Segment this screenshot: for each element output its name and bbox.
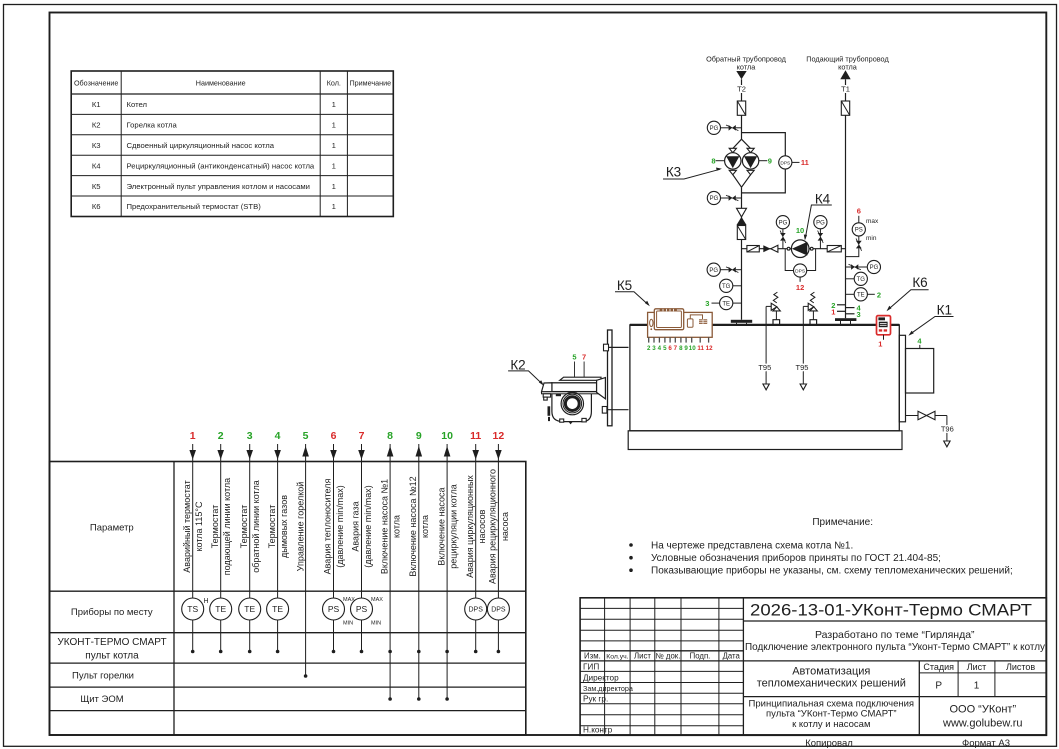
svg-text:К3: К3 — [92, 141, 101, 150]
signal line 8 — [389, 444, 391, 699]
panel wire bracket — [690, 315, 702, 319]
svg-text:3: 3 — [652, 345, 656, 352]
K6 buttons — [879, 329, 882, 331]
field instrument TE 4 — [267, 598, 289, 620]
svg-text:12: 12 — [706, 345, 713, 352]
strainer on return pipe top — [737, 101, 745, 115]
svg-text:max: max — [866, 218, 879, 225]
signal line 7 — [361, 444, 363, 652]
signal arrow 8 up — [387, 446, 394, 457]
svg-text:К1: К1 — [92, 100, 101, 109]
svg-text:Аварийный термостат: Аварийный термостат — [182, 480, 192, 572]
svg-text:PS: PS — [855, 228, 863, 234]
supply pipe outlet arrow — [840, 70, 850, 79]
label K1 — [908, 303, 953, 336]
panel small module — [687, 319, 693, 327]
svg-text:11: 11 — [470, 430, 481, 442]
svg-text:ГИП: ГИП — [583, 662, 599, 671]
svg-text:TG: TG — [722, 284, 731, 290]
signal arrow 5 up — [302, 446, 309, 457]
drain pipe T96 — [946, 416, 948, 441]
boiler K1 body — [630, 325, 899, 431]
svg-text:PG: PG — [779, 220, 788, 226]
pump K4 (node 10) — [791, 240, 809, 258]
svg-text:Показывающие приборы не указан: Показывающие приборы не указаны, см. схе… — [651, 565, 1013, 577]
safety valve drain pipe T95 right — [802, 306, 804, 384]
svg-text:Кол.: Кол. — [327, 79, 341, 88]
svg-text:9: 9 — [416, 430, 422, 442]
svg-text:(давление min/max): (давление min/max) — [363, 485, 373, 568]
burner fan rings — [561, 392, 583, 414]
panel pin numbers — [647, 345, 713, 352]
svg-text:7: 7 — [359, 430, 365, 442]
svg-text:Примечание:: Примечание: — [812, 517, 873, 528]
svg-text:К6: К6 — [912, 275, 927, 290]
pressure gauge PG with cock (recirc discharge) — [814, 216, 827, 249]
signal arrow 11 down — [472, 450, 479, 460]
svg-text:К2: К2 — [510, 358, 525, 373]
field instrument PS 7 — [351, 598, 373, 620]
svg-text:1: 1 — [974, 681, 980, 692]
svg-text:TS: TS — [187, 604, 198, 614]
panel terminal block — [699, 319, 707, 324]
burner left step — [543, 394, 550, 397]
svg-text:11: 11 — [801, 158, 809, 167]
svg-text:Н.контр: Н.контр — [583, 726, 613, 735]
svg-text:3: 3 — [247, 430, 253, 442]
svg-text:насоса: насоса — [500, 512, 510, 541]
svg-text:Т2: Т2 — [737, 85, 746, 94]
strainer on supply pipe — [841, 101, 849, 115]
svg-text:Условные обозначения приборов: Условные обозначения приборов приняты по… — [651, 552, 941, 564]
svg-text:Обозначение: Обозначение — [74, 79, 118, 88]
sensor pocket tick node 3 — [846, 313, 855, 315]
svg-text:PG: PG — [870, 265, 879, 271]
svg-text:MIN: MIN — [371, 621, 381, 627]
DPS bypass loop around twin pump — [742, 133, 786, 193]
pressure gauge PG with cock (return, above pumps) — [707, 121, 741, 134]
title block left grid verticals — [604, 598, 606, 736]
svg-text:№ док.: № док. — [655, 652, 680, 661]
burner detail marks — [556, 394, 561, 396]
svg-text:дымовых газов: дымовых газов — [279, 495, 289, 558]
svg-text:Термостат: Термостат — [210, 505, 220, 549]
signal arrow 1 down — [189, 450, 196, 460]
signal arrow 9 up — [416, 446, 423, 457]
supply pipe T1 — [845, 79, 847, 318]
svg-text:1: 1 — [332, 182, 336, 191]
safety valve SV2 — [803, 292, 817, 325]
svg-text:ООО “УКонт”: ООО “УКонт” — [949, 704, 1016, 716]
svg-text:Стадия: Стадия — [923, 662, 954, 672]
svg-text:К6: К6 — [92, 202, 101, 211]
panel display screen — [657, 311, 682, 328]
svg-text:min: min — [866, 235, 877, 242]
signal line 6 — [333, 444, 335, 652]
burner fan housing — [552, 394, 592, 422]
sensor pocket tick node 4 — [846, 307, 855, 309]
panel display bezel — [654, 309, 683, 330]
svg-text:Авария рециркуляционного: Авария рециркуляционного — [488, 469, 498, 584]
svg-text:К3: К3 — [666, 165, 681, 180]
svg-text:Дата: Дата — [723, 652, 741, 661]
svg-text:TE: TE — [244, 604, 255, 614]
svg-text:2026-13-01-УКонт-Термо СМАРТ: 2026-13-01-УКонт-Термо СМАРТ — [750, 601, 1032, 620]
burner left cap — [542, 383, 552, 392]
boiler rear flange band — [899, 335, 905, 422]
svg-text:Р: Р — [935, 681, 942, 692]
svg-text:10: 10 — [796, 226, 804, 235]
signal line 11 — [475, 444, 477, 652]
svg-text:4: 4 — [275, 430, 281, 442]
field instrument DPS 11 — [465, 598, 487, 620]
svg-text:PG: PG — [710, 126, 719, 132]
svg-text:Приборы по месту: Приборы по месту — [71, 607, 153, 618]
label K4 — [804, 192, 832, 241]
svg-text:тепломеханических решений: тепломеханических решений — [757, 678, 906, 690]
svg-text:котла: котла — [392, 515, 402, 538]
signal line 2 — [220, 444, 222, 652]
svg-text:Зам.директора: Зам.директора — [583, 684, 633, 693]
recirculation pipe — [742, 248, 846, 250]
svg-text:TE: TE — [272, 604, 283, 614]
K6 housing — [877, 316, 891, 335]
svg-text:PG: PG — [710, 196, 719, 202]
panel K5 body — [648, 312, 713, 337]
safety valve SV1 — [766, 292, 780, 325]
svg-text:К4: К4 — [815, 192, 831, 207]
burner mounting plate — [608, 330, 613, 426]
burner bolt upper — [604, 344, 629, 351]
signal line 9 — [418, 444, 420, 699]
connection dot burner panel row — [304, 674, 308, 678]
burner left foot — [544, 397, 548, 400]
strainer on return pipe bottom — [737, 226, 745, 240]
svg-text:насосов: насосов — [477, 509, 487, 543]
svg-text:Щит ЭОМ: Щит ЭОМ — [80, 694, 123, 705]
note bullet 2 — [629, 556, 633, 560]
svg-text:3: 3 — [705, 299, 709, 308]
svg-text:Сдвоенный циркуляционный насос: Сдвоенный циркуляционный насос котла — [127, 141, 275, 150]
svg-text:обратной линии котла: обратной линии котла — [251, 480, 261, 572]
note bullet 1 — [629, 543, 633, 547]
svg-text:Разработано по теме “Гирлянда”: Разработано по теме “Гирлянда” — [815, 629, 975, 641]
svg-text:Термостат: Термостат — [239, 505, 249, 549]
svg-text:Примечание: Примечание — [349, 79, 391, 88]
svg-text:1: 1 — [332, 141, 336, 150]
svg-text:1: 1 — [332, 161, 336, 170]
svg-text:8: 8 — [387, 430, 393, 442]
boiler top thick line — [630, 324, 899, 326]
burner bolt lower — [602, 407, 628, 414]
svg-text:Термостат: Термостат — [267, 505, 277, 549]
field instrument TS 1 — [182, 598, 204, 620]
svg-text:Пульт горелки: Пульт горелки — [72, 670, 134, 681]
svg-text:К4: К4 — [92, 161, 101, 170]
signal line 5 — [305, 444, 307, 676]
svg-text:Кол.уч.: Кол.уч. — [606, 654, 628, 661]
label K3 — [663, 165, 722, 180]
svg-text:7: 7 — [582, 353, 586, 362]
supply pipe flange to boiler — [835, 318, 856, 325]
field instrument PS 6 — [323, 598, 345, 620]
panel pins — [649, 337, 709, 342]
signal line 3 — [249, 444, 251, 652]
label K2 — [508, 358, 544, 386]
title block right part — [743, 620, 1046, 622]
safety valve drain pipe T95 left — [765, 306, 767, 384]
thermometer TG (supply) — [846, 272, 868, 285]
svg-text:К1: К1 — [937, 303, 952, 318]
panel left slot — [650, 319, 653, 326]
svg-text:(давление min/max): (давление min/max) — [335, 485, 345, 568]
svg-text:MIN: MIN — [343, 621, 353, 627]
svg-text:пульт котла: пульт котла — [85, 650, 139, 661]
twin pump suction diamond top — [733, 139, 742, 148]
pressure gauge PG with cock (supply) — [846, 260, 881, 273]
temperature sensor TE (supply, node 2) — [846, 288, 882, 301]
signal line 4 — [277, 444, 279, 652]
svg-text:Т95: Т95 — [758, 363, 771, 372]
signal column numbers — [190, 430, 505, 442]
signal arrow 7 down — [358, 450, 365, 460]
svg-text:Авария циркуляционных: Авария циркуляционных — [465, 475, 475, 578]
svg-text:1: 1 — [332, 100, 336, 109]
label K6 — [887, 275, 929, 311]
svg-text:Рук гр.: Рук гр. — [583, 695, 608, 704]
sensor pocket tick node 2 — [837, 304, 846, 306]
svg-text:12: 12 — [493, 430, 505, 442]
svg-text:Листов: Листов — [1006, 662, 1035, 672]
svg-text:8: 8 — [711, 157, 715, 166]
connection dots EOM board row — [388, 697, 449, 701]
pressure gauge PG with cock (return, lower) — [707, 263, 741, 276]
svg-text:PG: PG — [816, 220, 825, 226]
connection dots controller row — [191, 650, 500, 654]
svg-text:Включение насоса №12: Включение насоса №12 — [408, 476, 418, 576]
svg-text:4: 4 — [917, 337, 922, 346]
svg-text:Горелка котла: Горелка котла — [127, 121, 178, 130]
svg-text:1: 1 — [190, 430, 196, 442]
title block header labels — [584, 652, 740, 661]
pump port flange left — [787, 247, 790, 250]
check valve below pump A — [729, 170, 736, 174]
signal arrow 3 down — [246, 450, 253, 460]
svg-text:котла 115°С: котла 115°С — [194, 501, 204, 551]
sensor pocket tick node 1 — [837, 310, 846, 312]
svg-text:Копировал: Копировал — [805, 738, 853, 749]
check valve pump branch A — [729, 148, 736, 152]
svg-text:Изм.: Изм. — [584, 652, 601, 661]
svg-text:Подп.: Подп. — [690, 652, 711, 661]
svg-text:котла: котла — [420, 515, 430, 538]
svg-text:10: 10 — [441, 430, 453, 442]
svg-text:DPS: DPS — [795, 269, 805, 275]
svg-text:TE: TE — [722, 301, 730, 307]
svg-text:Формат А3: Формат А3 — [962, 738, 1010, 749]
panel display top hatch — [660, 309, 677, 311]
svg-text:Рециркуляционный (антиконденса: Рециркуляционный (антиконденсатный) насо… — [127, 161, 315, 170]
return pipe T2 — [741, 79, 743, 139]
svg-text:К5: К5 — [92, 182, 101, 191]
pressure gauge PG with cock (recirc suction) — [776, 216, 789, 249]
svg-text:2: 2 — [218, 430, 224, 442]
svg-text:котла: котла — [737, 62, 757, 71]
svg-text:Параметр: Параметр — [90, 522, 134, 533]
svg-text:MAX: MAX — [371, 597, 383, 603]
svg-text:котла: котла — [838, 62, 858, 71]
signal line 10 — [446, 444, 448, 699]
svg-text:PS: PS — [356, 604, 368, 614]
svg-text:Котел: Котел — [127, 100, 148, 109]
signal arrow 4 down — [274, 450, 281, 460]
svg-text:Лист: Лист — [634, 652, 651, 661]
svg-text:1: 1 — [831, 307, 835, 316]
title block left grid horizontals — [580, 607, 743, 609]
rotated parameter captions — [182, 469, 510, 584]
svg-text:К2: К2 — [92, 121, 101, 130]
equipment table header text — [74, 79, 391, 88]
signal line 12 — [497, 444, 499, 652]
svg-text:Т96: Т96 — [941, 425, 954, 434]
pressure switch PS branch (node 6) — [846, 207, 880, 257]
svg-text:Директор: Директор — [583, 673, 619, 682]
burner outlet flange cone — [597, 378, 606, 399]
svg-text:1: 1 — [878, 339, 882, 348]
svg-text:10: 10 — [689, 345, 696, 352]
svg-text:к котлу и насосам: к котлу и насосам — [792, 719, 870, 730]
svg-text:Управление горелкой: Управление горелкой — [296, 482, 306, 572]
svg-text:Наименование: Наименование — [196, 79, 246, 88]
svg-text:5: 5 — [572, 353, 576, 362]
svg-text:PG: PG — [709, 268, 718, 274]
equipment table frame — [71, 71, 393, 217]
K6 display — [879, 322, 888, 328]
svg-text:3: 3 — [857, 310, 861, 319]
field instrument TE 2 — [210, 598, 232, 620]
burner air box body — [552, 383, 597, 392]
svg-text:5: 5 — [303, 430, 309, 442]
svg-text:7: 7 — [674, 345, 678, 352]
svg-text:Включение насоса: Включение насоса — [436, 487, 446, 565]
svg-text:DPS: DPS — [468, 607, 483, 614]
return pipe inlet arrow — [736, 71, 746, 79]
title block signature labels — [583, 662, 633, 734]
boiler drain valve — [906, 411, 947, 419]
boiler base plinth — [628, 431, 902, 450]
K6 lead to boiler (node 1) — [883, 335, 885, 340]
pressure gauge PG with cock (return, below pumps) — [707, 191, 741, 204]
svg-text:Автоматизация: Автоматизация — [792, 666, 870, 678]
svg-text:DPS: DPS — [780, 160, 790, 166]
svg-text:5: 5 — [663, 345, 667, 352]
signal arrow 12 down — [495, 450, 502, 460]
svg-text:11: 11 — [697, 345, 704, 352]
svg-text:рециркуляции котла: рециркуляции котла — [449, 484, 459, 568]
burner top cover band — [560, 377, 601, 380]
pump port flange right — [810, 247, 813, 250]
svg-text:www.golubew.ru: www.golubew.ru — [942, 718, 1023, 730]
svg-text:подающей линии котла: подающей линии котла — [222, 478, 232, 575]
differential pressure switch DPS (node 11) — [779, 156, 792, 169]
thermometer TG (return) — [720, 279, 742, 292]
svg-text:TG: TG — [857, 277, 866, 283]
check valve pump branch B — [747, 148, 754, 152]
boiler rear smoke box — [906, 349, 934, 394]
svg-text:УКОНТ-ТЕРМО СМАРТ: УКОНТ-ТЕРМО СМАРТ — [57, 637, 166, 648]
svg-text:6: 6 — [331, 430, 337, 442]
svg-text:8: 8 — [679, 345, 683, 352]
temperature sensor TE (return, node 3) — [705, 297, 741, 310]
svg-text:Т95: Т95 — [796, 363, 809, 372]
svg-text:Т1: Т1 — [841, 85, 850, 94]
svg-text:6: 6 — [668, 345, 672, 352]
K6 top window — [878, 317, 885, 320]
svg-text:TE: TE — [215, 604, 226, 614]
svg-text:12: 12 — [796, 283, 804, 292]
svg-text:Лист: Лист — [967, 662, 987, 672]
panel left dot — [650, 328, 652, 330]
svg-text:H: H — [204, 598, 209, 605]
check valve on return pipe — [737, 208, 747, 225]
label K5 — [615, 278, 650, 306]
svg-text:6: 6 — [857, 207, 861, 216]
svg-text:К5: К5 — [617, 278, 632, 293]
svg-text:1: 1 — [332, 202, 336, 211]
strainer recirc left — [747, 246, 759, 252]
pump K3 branch A (node 8) — [725, 153, 741, 169]
svg-text:PS: PS — [328, 604, 340, 614]
burner bottom plate — [542, 392, 599, 394]
pump K3 branch B (node 9) — [742, 153, 758, 169]
svg-text:Подключение электронного пульт: Подключение электронного пульта “Уконт-Т… — [745, 641, 1046, 653]
field instrument DPS 12 — [487, 598, 509, 620]
signal arrow 6 down — [330, 450, 337, 460]
strainer recirc right — [827, 246, 841, 252]
field instrument TE 3 — [239, 598, 261, 620]
check valve recirc — [763, 245, 778, 252]
equipment table rows — [92, 100, 336, 211]
svg-text:Авария теплоносителя: Авария теплоносителя — [323, 479, 333, 575]
svg-text:DPS: DPS — [491, 607, 506, 614]
twin pump discharge diamond bottom — [733, 175, 742, 188]
signal arrow 10 up — [444, 446, 451, 457]
note bullet 3 — [629, 568, 633, 572]
node 4 on smoke box — [919, 345, 921, 349]
svg-text:2: 2 — [647, 345, 651, 352]
svg-text:На чертеже представлена схема: На чертеже представлена схема котла №1. — [651, 541, 853, 552]
parameter table frame — [50, 462, 526, 736]
svg-text:TE: TE — [857, 293, 865, 299]
signal line 1 — [192, 444, 194, 652]
DPS loop across pump K4 (node 12) — [785, 249, 793, 271]
svg-text:2: 2 — [877, 290, 881, 299]
parameter table row labels — [57, 522, 166, 705]
check valve below pump B — [747, 170, 754, 174]
signal arrow 2 down — [217, 450, 224, 460]
svg-text:4: 4 — [658, 345, 662, 352]
svg-text:Электронный пульт управления к: Электронный пульт управления котлом и на… — [127, 182, 310, 191]
svg-text:Включение насоса №1: Включение насоса №1 — [379, 479, 389, 574]
return pipe flange to boiler — [731, 320, 752, 325]
svg-text:1: 1 — [332, 121, 336, 130]
svg-text:9: 9 — [768, 157, 772, 166]
svg-text:Авария газа: Авария газа — [351, 501, 361, 551]
svg-text:Предохранительный термостат (S: Предохранительный термостат (STB) — [127, 202, 262, 211]
